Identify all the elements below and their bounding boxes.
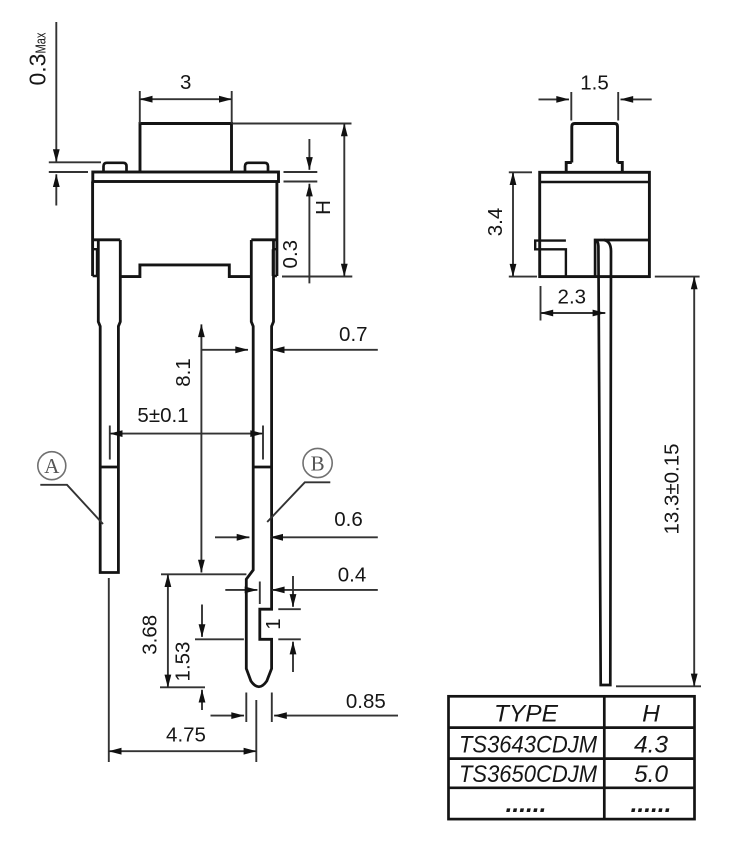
svg-text:A: A	[44, 454, 60, 478]
svg-text:2.3: 2.3	[558, 286, 587, 309]
dimension 5±0.1 (leg spacing)	[110, 426, 263, 460]
dimension 0.3Max (bump height, top-left)	[49, 22, 101, 206]
front view right foot	[273, 249, 277, 276]
dimension 1.5 (side button width)	[539, 92, 652, 121]
front view right bump	[245, 163, 268, 171]
svg-text:TS3650CDJM: TS3650CDJM	[459, 761, 598, 788]
svg-text:8.1: 8.1	[172, 358, 195, 387]
dimension 0.85 (tip width)	[211, 693, 399, 723]
dimension 1.53 (tip lower section)	[195, 605, 244, 711]
svg-text:3: 3	[180, 71, 191, 94]
svg-text:0.6: 0.6	[334, 508, 363, 531]
svg-text:TYPE: TYPE	[494, 701, 559, 728]
dimension 4.75 (leg to tip spacing)	[109, 578, 256, 762]
svg-text:0.3Max: 0.3Max	[25, 32, 51, 85]
svg-text:......: ......	[631, 791, 672, 818]
svg-text:1.5: 1.5	[580, 72, 609, 95]
front view bottom recess profile	[120, 265, 251, 277]
front view right leg	[246, 240, 273, 687]
svg-text:3.68: 3.68	[138, 615, 161, 655]
svg-text:5±0.1: 5±0.1	[137, 404, 188, 427]
label circle B with leader	[303, 448, 332, 477]
dimension 0.4 (notch depth)	[225, 582, 377, 605]
side view plate line	[540, 181, 650, 183]
side view leg notch	[595, 240, 649, 277]
svg-text:3.4: 3.4	[484, 208, 507, 237]
dimension 2.3 (body edge to leg)	[541, 286, 606, 321]
front view button stem	[140, 124, 232, 173]
svg-text:B: B	[311, 452, 325, 476]
svg-text:......: ......	[506, 791, 547, 818]
svg-text:4.3: 4.3	[634, 732, 668, 759]
front view top plate	[93, 172, 279, 182]
svg-text:TS3643CDJM: TS3643CDJM	[459, 732, 598, 759]
dimension 13.3±0.15 (leg length side view)	[616, 277, 701, 687]
type table grid	[449, 696, 695, 819]
dimension 0.3 (plate thickness)	[284, 139, 318, 283]
dimension 3.4 (side body height)	[509, 172, 537, 276]
svg-text:4.75: 4.75	[166, 724, 206, 747]
svg-text:0.4: 0.4	[338, 564, 367, 587]
side view button stem	[572, 124, 618, 163]
svg-text:H: H	[312, 200, 335, 215]
side view body	[540, 172, 650, 276]
front view body outline	[93, 182, 277, 277]
dimension 0.7 (upper leg width)	[201, 349, 377, 351]
front view left foot	[93, 249, 97, 276]
dimension H (total height, right of front view)	[233, 124, 352, 277]
svg-text:0.3: 0.3	[279, 240, 302, 269]
dimension 0.6 (lower leg width)	[215, 536, 378, 538]
svg-text:0.85: 0.85	[346, 690, 386, 713]
svg-text:0.7: 0.7	[339, 323, 368, 346]
dimension 8.1 (leg length)	[200, 324, 202, 572]
svg-text:H: H	[642, 701, 660, 728]
side view left tab	[535, 241, 566, 277]
label circle A with leader	[38, 452, 66, 480]
dimension 3 (button width)	[140, 91, 232, 124]
dimension 1 (notch height)	[278, 576, 301, 672]
svg-text:1: 1	[262, 618, 285, 629]
front view left bump	[104, 163, 127, 171]
side view bent leg	[595, 240, 611, 685]
svg-text:1.53: 1.53	[172, 642, 195, 682]
side view button collar	[566, 163, 622, 173]
dimension 3.68 (tip section)	[160, 574, 246, 687]
svg-text:5.0: 5.0	[634, 761, 668, 788]
front view left leg	[98, 240, 120, 573]
svg-text:13.3±0.15: 13.3±0.15	[661, 443, 684, 534]
